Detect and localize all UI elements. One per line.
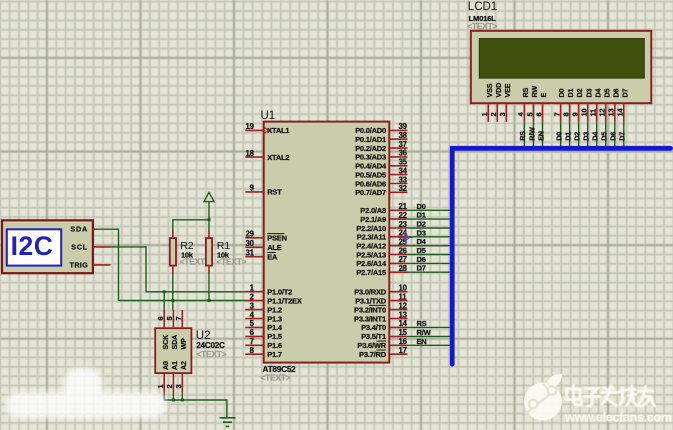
svg-text:P0.6/AD6: P0.6/AD6 xyxy=(355,179,386,188)
svg-text:P0.4/AD4: P0.4/AD4 xyxy=(355,162,387,171)
svg-text:I2C: I2C xyxy=(11,231,54,261)
U1 pin 4 P1.3 stub xyxy=(245,318,263,320)
U1 pin 7 P1.6 stub xyxy=(245,344,263,346)
svg-text:XTAL2: XTAL2 xyxy=(267,153,289,162)
wire net D2 from U1 pin 23 to bus xyxy=(408,227,450,229)
U1 XTAL1 clock mark xyxy=(264,127,268,133)
svg-text:www.elecfans.com: www.elecfans.com xyxy=(564,411,672,425)
wire net D7 from U1 pin 28 to bus xyxy=(408,271,450,273)
resistor R2 body xyxy=(170,238,176,266)
wire net D0 from U1 pin 21 to bus xyxy=(408,209,450,211)
svg-text:<TEXT>: <TEXT> xyxy=(216,257,246,267)
svg-text:<TEXT>: <TEXT> xyxy=(467,21,497,31)
svg-text:D5: D5 xyxy=(600,132,609,141)
svg-text:P2.3/A11: P2.3/A11 xyxy=(357,233,386,242)
wire net D1 from LCD1 pin 8 to bus xyxy=(569,122,571,146)
LCD1 pin 1 stub xyxy=(487,103,489,122)
U1 pin 1 P1.0/T2 stub xyxy=(245,291,263,293)
svg-text:30: 30 xyxy=(246,239,255,248)
svg-text:D5: D5 xyxy=(417,246,426,255)
U1 pin 8 P1.7 stub xyxy=(245,353,263,355)
svg-text:D1: D1 xyxy=(566,89,575,98)
svg-text:P2.4/A12: P2.4/A12 xyxy=(356,242,386,251)
wire net D2 from LCD1 pin 9 to bus xyxy=(578,122,580,146)
U1 pin 21 P2.0/A8 stub xyxy=(389,209,407,211)
watermark logo (dandelion circle) xyxy=(524,374,563,421)
svg-text:D7: D7 xyxy=(417,264,426,273)
svg-text:EN: EN xyxy=(417,337,427,346)
svg-text:D0: D0 xyxy=(417,202,426,211)
wire net D0 from LCD1 pin 7 to bus xyxy=(560,122,562,146)
U2 pin 7 WP stub xyxy=(181,310,183,328)
svg-text:19: 19 xyxy=(246,122,255,131)
U1 pin 14 P3.4/T0 stub xyxy=(389,326,407,328)
svg-text:D5: D5 xyxy=(602,89,611,98)
svg-text:5: 5 xyxy=(165,317,174,321)
wire R1 bottom to SDA net xyxy=(208,274,210,302)
svg-text:1: 1 xyxy=(480,113,489,117)
U1 pin 22 P2.1/A9 stub xyxy=(389,218,407,220)
svg-text:2: 2 xyxy=(489,113,498,117)
wire net D6 from LCD1 pin 13 to bus xyxy=(614,122,616,146)
wire net D4 from U1 pin 25 to bus xyxy=(408,245,450,247)
U1 pin 3 P1.2 stub xyxy=(245,309,263,311)
LCD1 pin 10 stub xyxy=(587,103,589,122)
R1 top pin stub xyxy=(208,230,210,239)
wire U2 pin 1 to ground rail xyxy=(164,394,227,418)
svg-text:7: 7 xyxy=(250,337,254,346)
svg-text:13: 13 xyxy=(607,109,616,117)
svg-text:D4: D4 xyxy=(591,132,600,141)
LCD1 pin 5 stub xyxy=(533,103,535,122)
EEPROM U2 (24C02C) body xyxy=(155,328,191,373)
svg-text:P2.1/A9: P2.1/A9 xyxy=(360,215,386,224)
U2 pin 6 SCK stub xyxy=(163,310,165,328)
svg-text:36: 36 xyxy=(399,149,408,158)
LCD1 pin 6 stub xyxy=(542,103,544,122)
R1 bottom pin stub xyxy=(208,266,210,274)
svg-text:P1.4: P1.4 xyxy=(267,323,283,332)
U1 pin 9 RST stub xyxy=(245,191,263,193)
U1 pin 19 XTAL1 stub xyxy=(245,129,263,131)
svg-text:D3: D3 xyxy=(584,89,593,98)
wire net D6 from U1 pin 27 to bus xyxy=(408,262,450,264)
LCD1 pin 12 stub xyxy=(605,103,607,122)
svg-text:33: 33 xyxy=(399,175,408,184)
svg-text:D4: D4 xyxy=(593,89,602,98)
svg-text:ALE: ALE xyxy=(267,243,282,252)
svg-text:P2.7/A15: P2.7/A15 xyxy=(356,268,386,277)
LCD1 pin 11 stub xyxy=(596,103,598,122)
U1 pin 15 P3.5/T1 stub xyxy=(389,335,407,337)
svg-text:U1: U1 xyxy=(261,110,276,122)
svg-text:D7: D7 xyxy=(618,132,627,141)
svg-text:P1.6: P1.6 xyxy=(267,341,282,350)
svg-text:10: 10 xyxy=(399,284,408,293)
svg-text:7: 7 xyxy=(174,317,183,321)
U1 pin 33 P0.6/AD6 stub xyxy=(389,183,407,185)
wire net D5 from U1 pin 26 to bus xyxy=(408,254,450,256)
svg-text:6: 6 xyxy=(534,113,543,117)
svg-text:P0.1/AD1: P0.1/AD1 xyxy=(355,135,386,144)
wire U2 pin 2 to ground rail xyxy=(172,394,174,400)
svg-text:13: 13 xyxy=(399,310,408,319)
svg-text:9: 9 xyxy=(570,113,579,117)
U1 pin 25 P2.4/A12 stub xyxy=(389,245,407,247)
svg-text:18: 18 xyxy=(246,149,255,158)
svg-text:RS: RS xyxy=(518,131,527,141)
svg-text:34: 34 xyxy=(399,166,408,175)
svg-text:EA: EA xyxy=(267,253,278,262)
wire R2 bottom to U2 pin 5 xyxy=(172,274,174,311)
svg-text:SDA: SDA xyxy=(170,335,179,350)
U1 pin 30 ALE stub xyxy=(245,246,263,248)
I2C pin SCL stub xyxy=(93,246,111,248)
R2 bottom pin stub xyxy=(172,266,174,274)
svg-text:P2.0/A8: P2.0/A8 xyxy=(360,206,386,215)
svg-text:21: 21 xyxy=(399,202,408,211)
LCD1 pin 7 stub xyxy=(560,103,562,122)
U1 pin 11 P3.1/TXD stub xyxy=(389,300,407,302)
U1 pin 6 P1.5 stub xyxy=(245,335,263,337)
U1 pin 31 EA stub xyxy=(245,256,263,258)
wire junction xyxy=(171,299,174,302)
svg-text:<TEXT>: <TEXT> xyxy=(261,373,291,383)
U2 pin 5 SDA stub xyxy=(172,310,174,328)
cursor crosshair marker near U1 pin 24 xyxy=(399,231,413,245)
LCD1 pin 9 stub xyxy=(578,103,580,122)
svg-text:27: 27 xyxy=(399,255,407,264)
wire net SCL: I2C SCL to U1 P1.0 xyxy=(111,247,246,292)
svg-text:P1.7: P1.7 xyxy=(267,350,282,359)
U1 pin 17 P3.7/RD stub xyxy=(389,353,407,355)
U1 pin 18 XTAL2 stub xyxy=(245,156,263,158)
svg-text:D1: D1 xyxy=(563,132,572,141)
svg-text:D7: D7 xyxy=(620,89,629,98)
svg-text:D4: D4 xyxy=(417,237,427,246)
I2C module body xyxy=(2,220,93,273)
svg-text:22: 22 xyxy=(399,211,408,220)
svg-text:7: 7 xyxy=(552,113,561,117)
bus (blue) horizontal and vertical run xyxy=(452,148,670,364)
svg-text:TRIG: TRIG xyxy=(70,260,88,269)
svg-text:RS: RS xyxy=(417,319,427,328)
svg-text:31: 31 xyxy=(246,249,255,258)
wire net D5 from LCD1 pin 12 to bus xyxy=(605,122,607,146)
svg-text:D2: D2 xyxy=(417,220,426,229)
svg-text:D3: D3 xyxy=(417,228,426,237)
svg-text:14: 14 xyxy=(616,108,625,117)
wire net RS from LCD1 pin 4 to bus xyxy=(523,122,525,146)
white smudge (erased watermark) xyxy=(6,368,166,418)
svg-text:P1.3: P1.3 xyxy=(267,314,282,323)
wire junction xyxy=(181,399,184,402)
svg-text:P1.2: P1.2 xyxy=(267,305,282,314)
wire net R/W from LCD1 pin 5 to bus xyxy=(533,122,535,146)
resistor R1 body xyxy=(206,238,212,266)
svg-text:P3.0/RXD: P3.0/RXD xyxy=(354,288,387,297)
LCD1 pin 14 stub xyxy=(623,103,625,122)
svg-text:P0.2/AD2: P0.2/AD2 xyxy=(355,144,386,153)
svg-text:P3.7/RD: P3.7/RD xyxy=(359,350,387,359)
svg-text:SCK: SCK xyxy=(161,334,170,350)
svg-text:28: 28 xyxy=(399,264,408,273)
svg-text:37: 37 xyxy=(399,140,407,149)
wire net D7 from LCD1 pin 14 to bus xyxy=(623,122,625,146)
svg-text:EN: EN xyxy=(536,131,545,141)
svg-text:D2: D2 xyxy=(575,89,584,98)
U1 pin 38 P0.1/AD1 stub xyxy=(389,138,407,140)
svg-text:RST: RST xyxy=(267,188,282,197)
U1 pin 28 P2.7/A15 stub xyxy=(389,271,407,273)
U2 pin 1 A0 stub xyxy=(163,373,165,394)
svg-text:D0: D0 xyxy=(557,89,566,98)
R2 top pin stub xyxy=(172,230,174,239)
wire net D1 from U1 pin 22 to bus xyxy=(408,218,450,220)
svg-text:32: 32 xyxy=(399,184,408,193)
svg-text:29: 29 xyxy=(246,230,255,239)
svg-text:R/W: R/W xyxy=(527,127,536,141)
I2C pin SDA stub xyxy=(93,228,97,230)
svg-text:1: 1 xyxy=(156,385,165,389)
wire net RS from U1 to bus xyxy=(408,326,450,328)
svg-text:D6: D6 xyxy=(417,255,426,264)
U1 pin 32 P0.7/AD7 stub xyxy=(389,191,407,193)
svg-text:E: E xyxy=(539,93,548,98)
I2C inner display box xyxy=(7,229,61,265)
U1 pin 5 P1.4 stub xyxy=(245,326,263,328)
U1 pin 39 P0.0/AD0 stub xyxy=(389,129,407,131)
wire net D4 from LCD1 pin 11 to bus xyxy=(596,122,598,146)
microcontroller U1 (AT89C52) body xyxy=(264,122,390,363)
wire net D3 from U1 pin 24 to bus xyxy=(408,236,450,238)
svg-text:5: 5 xyxy=(525,113,534,117)
svg-text:P1.0/T2: P1.0/T2 xyxy=(267,288,292,297)
svg-text:P0.3/AD3: P0.3/AD3 xyxy=(355,153,386,162)
svg-text:WP: WP xyxy=(179,338,188,350)
wire junction xyxy=(208,218,211,221)
LCD1 pin 4 stub xyxy=(523,103,525,122)
wire junction xyxy=(208,299,211,302)
svg-text:10: 10 xyxy=(580,109,589,117)
U1 pin 16 P3.6/WR stub xyxy=(389,344,407,346)
svg-text:14: 14 xyxy=(399,319,408,328)
U1 pin 13 P3.3/INT1 stub xyxy=(389,318,407,320)
svg-text:2: 2 xyxy=(165,385,174,389)
svg-text:23: 23 xyxy=(399,220,408,229)
svg-text:VSS: VSS xyxy=(485,83,494,97)
ground symbol xyxy=(220,418,236,427)
svg-text:P2.5/A13: P2.5/A13 xyxy=(356,250,386,259)
U1 pin 29 PSEN stub xyxy=(245,237,263,239)
svg-text:26: 26 xyxy=(399,246,408,255)
svg-text:P0.7/AD7: P0.7/AD7 xyxy=(355,188,386,197)
power arrow symbol xyxy=(204,192,214,201)
svg-text:P3.2/INT0: P3.2/INT0 xyxy=(354,305,386,314)
svg-text:SCL: SCL xyxy=(71,242,88,251)
svg-text:3: 3 xyxy=(498,113,507,117)
U1 pin 24 P2.3/A11 stub xyxy=(389,236,407,238)
U1 pin 26 P2.5/A13 stub xyxy=(389,254,407,256)
svg-text:P2.6/A14: P2.6/A14 xyxy=(356,259,387,268)
svg-text:8: 8 xyxy=(561,113,570,117)
U2 pin 2 A1 stub xyxy=(172,373,174,394)
svg-text:P3.6/WR: P3.6/WR xyxy=(357,341,386,350)
wire U2 pin 3 to ground rail xyxy=(181,394,183,400)
svg-text:11: 11 xyxy=(399,292,408,301)
svg-text:A0: A0 xyxy=(161,361,170,370)
LCD1 pin 3 stub xyxy=(505,103,507,122)
svg-text:P3.5/T1: P3.5/T1 xyxy=(361,332,386,341)
svg-text:P3.4/T0: P3.4/T0 xyxy=(361,323,386,332)
svg-text:3: 3 xyxy=(174,385,183,389)
svg-text:A2: A2 xyxy=(179,361,188,370)
U1 pin 27 P2.6/A14 stub xyxy=(389,262,407,264)
svg-text:15: 15 xyxy=(399,328,408,337)
svg-text:RS: RS xyxy=(521,88,530,98)
svg-text:LCD1: LCD1 xyxy=(468,1,497,13)
svg-text:16: 16 xyxy=(399,337,408,346)
svg-text:D3: D3 xyxy=(582,132,591,141)
svg-text:P3.1/TXD: P3.1/TXD xyxy=(355,296,387,305)
svg-text:12: 12 xyxy=(399,301,408,310)
U1 pin 36 P0.3/AD3 stub xyxy=(389,156,407,158)
svg-text:SDA: SDA xyxy=(70,225,88,234)
wire junction xyxy=(163,290,166,293)
U1 pin 34 P0.5/AD5 stub xyxy=(389,174,407,176)
svg-text:6: 6 xyxy=(156,317,165,321)
wire junction xyxy=(172,399,175,402)
svg-text:17: 17 xyxy=(399,346,407,355)
wire SCL branch to U2 pin 6 xyxy=(163,292,165,310)
svg-text:P2.2/A10: P2.2/A10 xyxy=(356,224,386,233)
svg-text:R/W: R/W xyxy=(417,328,432,337)
svg-text:P0.5/AD5: P0.5/AD5 xyxy=(355,170,386,179)
svg-text:VEE: VEE xyxy=(503,83,512,97)
watermark chinese text 电子发烧友 (approximated strokes) xyxy=(567,386,655,407)
U2 pin 3 A2 stub xyxy=(181,373,183,394)
svg-text:P1.1/T2EX: P1.1/T2EX xyxy=(267,296,302,305)
svg-text:RW: RW xyxy=(530,86,539,98)
LCD1 pin 13 stub xyxy=(614,103,616,122)
svg-text:38: 38 xyxy=(399,131,408,140)
U1 pin 12 P3.2/INT0 stub xyxy=(389,309,407,311)
svg-text:D6: D6 xyxy=(611,89,620,98)
wire net R/W from U1 to bus xyxy=(408,335,450,337)
U1 pin 23 P2.2/A10 stub xyxy=(389,227,407,229)
wire R2 top to power rail xyxy=(173,220,209,230)
LCD1 pin 8 stub xyxy=(569,103,571,122)
LCD1 pin 2 stub xyxy=(496,103,498,122)
svg-text:P3.3/INT1: P3.3/INT1 xyxy=(354,314,386,323)
LCD1 display screen xyxy=(479,39,644,79)
U1 pin 35 P0.4/AD4 stub xyxy=(389,165,407,167)
wire net EN from U1 to bus xyxy=(408,344,450,346)
wire net EN from LCD1 pin 6 to bus xyxy=(542,122,544,146)
svg-text:<TEXT>: <TEXT> xyxy=(196,349,226,359)
svg-text:D2: D2 xyxy=(572,132,581,141)
wire net D3 from LCD1 pin 10 to bus xyxy=(587,122,589,146)
wire power arrow to R1 top xyxy=(208,202,210,230)
svg-text:35: 35 xyxy=(399,158,408,167)
svg-text:VDD: VDD xyxy=(494,83,503,98)
wire net SDA: I2C SDA to junction xyxy=(97,229,245,300)
U1 pin 10 P3.0/RXD stub xyxy=(389,291,407,293)
svg-text:PSEN: PSEN xyxy=(267,234,287,243)
I2C pin TRIG stub xyxy=(93,264,111,266)
U1 pin 2 P1.1/T2EX stub xyxy=(245,300,263,302)
svg-text:D1: D1 xyxy=(417,211,426,220)
svg-text:A1: A1 xyxy=(170,361,179,370)
svg-text:39: 39 xyxy=(399,122,408,131)
svg-text:D0: D0 xyxy=(554,132,563,141)
U1 pin 37 P0.2/AD2 stub xyxy=(389,147,407,149)
svg-text:12: 12 xyxy=(598,109,607,117)
svg-text:11: 11 xyxy=(589,109,598,117)
LCD1 body xyxy=(471,31,652,103)
svg-text:D6: D6 xyxy=(609,132,618,141)
svg-text:P0.0/AD0: P0.0/AD0 xyxy=(355,126,386,135)
svg-text:XTAL1: XTAL1 xyxy=(267,126,289,135)
svg-text:P1.5: P1.5 xyxy=(267,332,282,341)
